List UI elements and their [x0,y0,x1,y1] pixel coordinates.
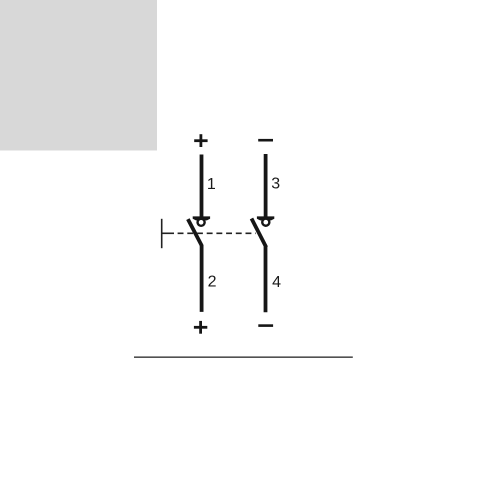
wire terminal 1 to pole 1 fixed contact [200,155,204,217]
pin number 3 [271,176,280,193]
minus polarity mark at terminal 3 [258,139,273,142]
wire pole 1 to terminal 2 [200,245,204,312]
svg-text:3: 3 [271,176,280,193]
pole 2 fixed contact (bar and circle) [257,216,274,225]
separator rule [134,356,353,358]
pole 1 moving contact blade [188,219,202,246]
wire pole 2 to terminal 4 [264,247,268,313]
mechanical linkage dashed line [162,232,256,234]
pole 2 moving contact blade [252,219,267,248]
pole 1 fixed contact (bar and circle) [193,216,210,225]
svg-text:4: 4 [272,274,281,291]
pin number 4 [272,274,281,291]
actuator tick mark [161,219,163,248]
pin number 2 [208,274,217,291]
wire terminal 3 to pole 2 fixed contact [264,154,268,217]
gray image placeholder block [0,0,157,151]
plus polarity mark at terminal 1 [194,134,207,147]
pin number 1 [207,176,216,193]
svg-text:1: 1 [207,176,216,193]
svg-text:2: 2 [208,274,217,291]
minus polarity mark at terminal 4 [258,324,273,327]
plus polarity mark at terminal 2 [194,321,207,334]
